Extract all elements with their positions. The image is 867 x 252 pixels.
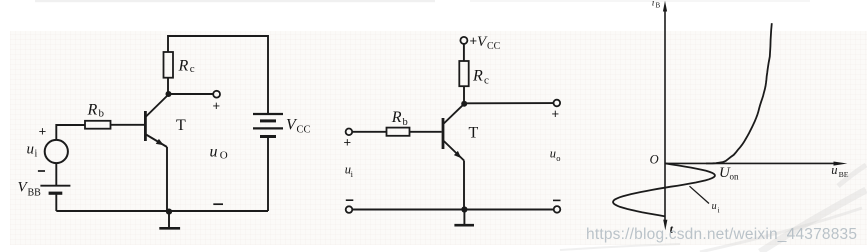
ground (left): stub	[168, 212, 170, 227]
svg-text:i: i	[652, 0, 655, 9]
terminal: +Vcc open circle (middle top)	[460, 37, 467, 44]
svg-text:u: u	[550, 146, 556, 160]
battery VBB short plate	[49, 192, 63, 195]
transistor T (middle): base bar	[442, 118, 445, 149]
battery VBB long plate	[40, 185, 70, 187]
svg-text:CC: CC	[297, 125, 311, 136]
svg-text:u: u	[712, 201, 717, 212]
terminal: bottom-right open circle	[554, 206, 561, 213]
node: collector junction dot (left)	[166, 91, 172, 97]
watermark streak shapes	[560, 165, 866, 252]
terminal: bottom-left open circle	[346, 206, 353, 213]
transistor T (middle): emitter lead	[444, 141, 464, 161]
curve: transistor input characteristic (exponential)	[706, 23, 772, 163]
axis arrowhead right	[834, 162, 848, 166]
svg-text:O: O	[220, 150, 228, 162]
axis arrowhead up	[663, 1, 667, 12]
svg-text:+: +	[344, 135, 352, 150]
curve: ui sine wave along t axis	[613, 163, 715, 216]
ground (middle): bar	[454, 224, 474, 227]
svg-text:c: c	[190, 63, 195, 75]
wire: Rc bottom to collector node	[167, 78, 169, 94]
svg-text:b: b	[99, 108, 105, 120]
axis: horizontal uBE axis	[665, 162, 838, 164]
svg-text:i: i	[351, 169, 354, 179]
terminal: middle input open circle	[346, 129, 353, 136]
battery VCC plate 1 long	[253, 113, 283, 115]
node: emitter junction dot on bottom rail	[166, 209, 172, 215]
label - at middle bottom-left	[346, 199, 354, 201]
svg-text:u: u	[27, 142, 35, 158]
wire: collector node to output terminal	[169, 93, 214, 95]
wire: +Vcc to Rc	[463, 44, 465, 61]
svg-text:R: R	[472, 68, 483, 85]
svg-text:u: u	[210, 144, 218, 161]
label - on bottom rail (left output minus)	[213, 203, 223, 205]
battery VCC plate 2 short	[260, 119, 276, 122]
transistor T (middle): collector lead	[444, 104, 464, 124]
wire: VBB to bottom rail	[55, 193, 57, 211]
svg-text:o: o	[556, 153, 560, 163]
ground (left): bar	[159, 227, 180, 230]
wire: emitter down to bottom rail	[166, 147, 168, 211]
source ui circle (left)	[45, 140, 68, 163]
wire: input top from source to Rb	[56, 125, 85, 140]
label - at middle bottom-right	[553, 199, 561, 201]
resistor Rb (left)	[85, 121, 111, 129]
svg-text:+: +	[213, 98, 221, 113]
svg-text:O: O	[650, 153, 659, 167]
axis: vertical iB / t axis	[664, 10, 666, 223]
transistor T (left): emitter lead	[146, 135, 167, 148]
svg-text:BB: BB	[28, 188, 42, 199]
label - at source (left)	[38, 170, 45, 172]
svg-text:c: c	[484, 75, 489, 87]
wire: input to Rb (middle)	[352, 131, 386, 133]
battery VCC plate 3 long	[253, 127, 283, 129]
battery VCC plate 4 short	[260, 135, 276, 138]
resistor Rc (left)	[164, 52, 174, 78]
wire: Rb to base bar (middle)	[410, 131, 442, 133]
wire: emitter down to bottom rail (middle)	[463, 161, 465, 210]
wire: VCC bottom to bottom rail	[267, 137, 269, 212]
wire: top rail from Rc top to Vcc branch	[168, 36, 268, 114]
terminal: left output open circle	[213, 91, 220, 98]
ground (middle): stub	[463, 210, 465, 225]
wire: bottom rail (left circuit)	[56, 210, 268, 212]
svg-text:R: R	[391, 109, 402, 126]
axis arrowhead down (t)	[663, 220, 667, 231]
resistor Rc (middle)	[459, 61, 468, 86]
svg-text:b: b	[403, 117, 408, 128]
transistor T (left): collector lead	[146, 95, 169, 117]
svg-text:on: on	[730, 172, 740, 182]
transistor T (left): base bar	[144, 111, 147, 141]
svg-text:B: B	[656, 2, 661, 10]
svg-text:R: R	[87, 102, 98, 119]
transistor T (middle): emitter arrowhead	[454, 151, 461, 158]
wire: source to battery VBB	[55, 163, 57, 186]
svg-text:R: R	[178, 58, 189, 75]
faint top-edge smudges	[35, 0, 435, 2]
svg-text:CC: CC	[487, 41, 501, 52]
svg-text:+: +	[552, 106, 560, 121]
svg-text:u: u	[831, 163, 837, 177]
svg-text:i: i	[718, 206, 720, 215]
node: bottom junction dot (middle)	[461, 206, 467, 212]
svg-text:https://blog.csdn.net/weixin_4: https://blog.csdn.net/weixin_44378835	[586, 226, 857, 243]
wire: Rc bottom to collector node	[463, 86, 465, 103]
leader line to ui label	[690, 186, 710, 203]
svg-text:i: i	[35, 149, 38, 160]
svg-text:+: +	[470, 33, 478, 48]
wire: collector node to output terminal	[464, 102, 553, 104]
wire: Rb to base bar	[111, 124, 145, 126]
node: collector junction dot (middle)	[461, 101, 467, 107]
resistor Rb (middle)	[387, 128, 410, 136]
svg-text:+: +	[39, 124, 47, 139]
svg-text:T: T	[469, 125, 479, 142]
transistor T (left): emitter arrowhead	[156, 139, 164, 145]
terminal: middle output open circle	[554, 100, 561, 107]
wire: bottom rail (middle)	[352, 209, 553, 211]
svg-text:T: T	[176, 117, 186, 134]
